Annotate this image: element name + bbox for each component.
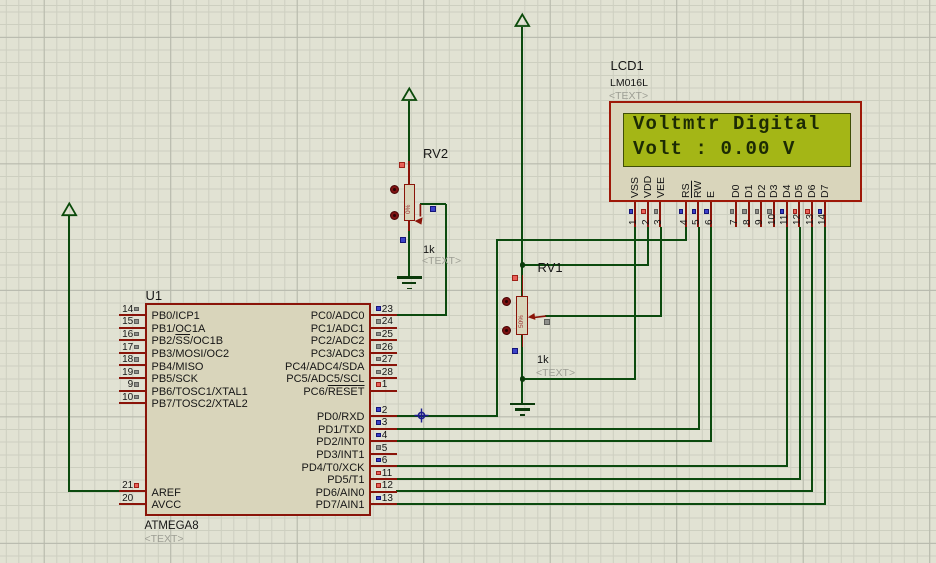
LCD pin number 7	[729, 220, 741, 226]
LCD pin label VDD	[642, 175, 655, 197]
label U1	[146, 288, 163, 303]
pin number 24	[382, 316, 393, 328]
RV2 adjust button upper	[390, 185, 399, 194]
label LCD1	[611, 58, 644, 73]
label RV1	[538, 260, 563, 275]
resistor RV2 top pin	[408, 161, 410, 184]
RV2 pin state square top	[399, 162, 405, 168]
ground under RV2	[397, 276, 422, 278]
pin stub left 14	[119, 314, 144, 316]
pin stub left 21	[119, 490, 144, 492]
wire pin23 wire	[396, 314, 448, 316]
pin stub right 27	[371, 364, 396, 366]
wire RV1 ground wire	[521, 335, 523, 404]
pin number 2	[382, 405, 388, 417]
pin number 4	[382, 430, 388, 442]
pin number 16	[122, 329, 133, 341]
wire power rail to AREF horizontal	[69, 490, 121, 492]
pin state square 24	[376, 319, 381, 324]
label LM016L	[610, 77, 648, 90]
LCD pin state square 5	[692, 209, 696, 213]
wire PD5 row wire	[396, 478, 801, 480]
resistor RV2 body	[404, 184, 415, 221]
pin name PB5/SCK	[152, 373, 198, 386]
LCD pin number 14	[817, 214, 829, 225]
pin state square 21	[134, 483, 139, 488]
pin state square 3	[376, 420, 381, 425]
power terminal +V left	[61, 201, 78, 218]
wire RV2 supply vertical	[408, 101, 410, 164]
pin name PC5/ADC5/SCL	[286, 373, 364, 386]
wire power rail to AREF vertical	[68, 216, 70, 492]
pin stub right 11	[371, 478, 396, 480]
pin state square 27	[376, 357, 381, 362]
LCD pin stub 11	[786, 202, 788, 227]
pin number 26	[382, 342, 393, 354]
pin name PD3/INT1	[316, 449, 364, 462]
pin number 12	[382, 480, 393, 492]
label RV2	[423, 146, 448, 161]
LCD pin number 11	[779, 215, 791, 225]
LCD pin label D4	[781, 184, 794, 197]
pin number 6	[382, 455, 388, 467]
wire E column	[710, 227, 712, 443]
pin stub right 26	[371, 352, 396, 354]
resistor RV2 bottom pin	[408, 221, 410, 231]
LCD pin stub 10	[773, 202, 775, 227]
pin number 19	[122, 367, 133, 379]
pin state square 17	[134, 345, 139, 350]
pin state square 11	[376, 471, 381, 476]
LCD pin stub 6	[710, 202, 712, 227]
pin name PB0/ICP1	[152, 310, 200, 323]
RV1 pin state square top	[512, 275, 518, 281]
wire PD7 row wire	[396, 503, 826, 505]
LCD pin stub 8	[748, 202, 750, 227]
wire D5 column	[799, 227, 801, 480]
wire RV2 wiper vertical	[445, 204, 447, 316]
label RV1 value 1k	[537, 354, 549, 367]
LCD pin number 3	[653, 220, 665, 226]
LCD pin number 8	[742, 220, 754, 226]
LCD pin number 12	[792, 214, 804, 225]
wire D6 column	[811, 227, 813, 493]
pin stub left 18	[119, 364, 144, 366]
LCD pin number 6	[704, 220, 716, 226]
pin stub left 16	[119, 339, 144, 341]
pin state square 14	[134, 307, 139, 312]
LCD pin state square 11	[780, 209, 784, 213]
RV2 adjust button lower	[390, 211, 399, 220]
junction +5V/VDD node	[520, 262, 526, 268]
LCD pin number 9	[754, 220, 766, 226]
pin number 21	[122, 480, 133, 492]
LCD pin number 10	[767, 214, 779, 225]
pin name PC6/<span st	[303, 386, 364, 399]
wire PD0 row wire	[396, 415, 499, 417]
LCD pin label E	[705, 190, 718, 197]
pin name PD7/AIN1	[316, 499, 365, 512]
pin name PD1/TXD	[318, 424, 364, 437]
ground under RV1	[510, 403, 535, 405]
pin name PB1/OC1A	[152, 323, 206, 336]
wire PD1 row wire	[396, 428, 700, 430]
wire VSS column	[634, 227, 636, 381]
LCD pin stub 14	[824, 202, 826, 227]
pin state square 16	[134, 332, 139, 337]
LCD pin state square 7	[730, 209, 734, 213]
LCD pin label D1	[743, 184, 756, 197]
LCD pin stub 4	[685, 202, 687, 227]
LCD pin label D7	[819, 184, 832, 197]
LCD pin label D0	[730, 184, 743, 197]
pin state square 15	[134, 319, 139, 324]
pin name PB4/MISO	[152, 361, 204, 374]
pin stub right 2	[371, 415, 396, 417]
pin name AVCC	[152, 499, 182, 512]
pin state square 1	[376, 382, 381, 387]
LCD pin stub 5	[697, 202, 699, 227]
pin state square 6	[376, 458, 381, 463]
RV1 adjust button upper	[502, 297, 511, 306]
node origin marker crosshair	[414, 408, 429, 423]
wire +5V vertical to RV1	[521, 27, 523, 298]
wire RS rail horizontal	[496, 239, 687, 241]
wire RV1 wiper horizontal	[545, 315, 662, 317]
pin number 3	[382, 417, 388, 429]
pin state square 5	[376, 445, 381, 450]
LCD pin state square 13	[805, 209, 809, 213]
pin number 11	[382, 468, 392, 480]
pin name PC3/ADC3	[311, 348, 365, 361]
pin name PD6/AIN0	[316, 487, 365, 500]
wire ground rail horizontal	[522, 378, 636, 380]
pin name PD5/T1	[327, 474, 364, 487]
pin stub right 28	[371, 377, 396, 379]
LCD pin state square 1	[629, 209, 633, 213]
LCD pin stub 2	[647, 202, 649, 227]
RV1 wiper arrow + wire to VEE	[526, 309, 548, 323]
LCD pin label VEE	[655, 176, 668, 197]
pin state square 9	[134, 382, 139, 387]
LCD pin label D5	[793, 184, 806, 197]
pin stub right 24	[371, 327, 396, 329]
wire VDD rail horizontal	[522, 264, 649, 266]
pin number 15	[122, 316, 133, 328]
pin name PC2/ADC2	[311, 335, 365, 348]
RV2 pin state square wiper	[430, 206, 436, 212]
wire PD4 row wire	[396, 465, 788, 467]
pin number 1	[382, 379, 388, 391]
IC U1 microcontroller ATMEGA8 body	[145, 303, 372, 517]
LCD1 screen	[623, 113, 851, 167]
label LCD1 TEXT	[609, 90, 648, 103]
power terminal +V main	[514, 12, 531, 28]
LCD pin number 2	[641, 220, 653, 226]
pin number 14	[122, 304, 133, 316]
LCD pin stub 7	[735, 202, 737, 227]
LCD pin label VSS	[629, 176, 642, 197]
RV1 body value text	[518, 315, 526, 328]
LCD pin state square 10	[767, 209, 771, 213]
pin state square 28	[376, 370, 381, 375]
pin state square 23	[376, 306, 381, 311]
pin name PD0/RXD	[317, 411, 365, 424]
junction ground node	[520, 376, 526, 382]
pin name PB3/MOSI/OC2	[152, 348, 230, 361]
pin number 27	[382, 354, 393, 366]
pin state square 13	[376, 496, 381, 501]
resistor RV1 bottom pin	[522, 335, 524, 347]
pin number 9	[128, 379, 134, 391]
wire VEE column	[660, 227, 662, 317]
LCD pin label D3	[768, 184, 781, 197]
wire PD6 row wire	[396, 490, 814, 492]
pin name PC1/ADC1	[311, 323, 365, 336]
pin state square 12	[376, 483, 381, 488]
pin name PB6/TOSC1/XT	[152, 386, 248, 399]
power terminal +V RV2	[401, 86, 418, 102]
LCD pin stub 9	[760, 202, 762, 227]
pin number 18	[122, 354, 133, 366]
LCD pin state square 9	[755, 209, 759, 213]
RV1 pin state square wiper	[544, 319, 550, 325]
pin number 5	[382, 443, 388, 455]
pin state square 4	[376, 433, 381, 438]
wire D4 column	[786, 227, 788, 468]
pin state square 10	[134, 395, 139, 400]
pin stub right 13	[371, 503, 396, 505]
pin number 13	[382, 493, 393, 505]
label RV1 TEXT	[536, 367, 575, 380]
LCD pin state square 12	[793, 209, 797, 213]
LCD pin label RS	[680, 183, 693, 198]
pin state square 26	[376, 344, 381, 349]
pin number 20	[122, 493, 133, 505]
wire RV2 wiper horizontal	[420, 203, 447, 205]
wire D7 column	[824, 227, 826, 506]
label RV2 value 1k	[423, 244, 435, 257]
LCD pin number 1	[628, 220, 640, 226]
LCD pin label D6	[806, 184, 819, 197]
pin stub left 17	[119, 352, 144, 354]
LCD pin number 4	[679, 220, 691, 226]
LCD pin number 13	[805, 214, 817, 225]
pin stub left 10	[119, 402, 144, 404]
wire RV2 ground wire	[408, 228, 410, 278]
pin number 10	[122, 392, 133, 404]
pin stub right 3	[371, 428, 396, 430]
pin state square 18	[134, 357, 139, 362]
pin name PB7/TOSC2/XT	[152, 398, 248, 411]
pin stub right 1	[371, 390, 396, 392]
pin name PD4/T0/XCK	[302, 462, 365, 475]
wire RS column	[685, 227, 687, 242]
wire RS rail vertical	[496, 240, 498, 417]
pin number 17	[122, 342, 133, 354]
pin state square 19	[134, 370, 139, 375]
pin stub right 5	[371, 453, 396, 455]
LCD pin label D2	[756, 184, 769, 197]
pin name PD2/INT0	[316, 436, 364, 449]
resistor RV1 top pin	[522, 275, 524, 297]
pin stub right 4	[371, 440, 396, 442]
pin state square 2	[376, 407, 381, 412]
pin name AREF	[152, 487, 181, 500]
LCD pin state square 8	[742, 209, 746, 213]
RV1 pin state square bottom	[512, 348, 518, 354]
pin stub left 20	[119, 503, 144, 505]
LCD pin stub 13	[811, 202, 813, 227]
LCD pin stub 3	[659, 202, 661, 227]
pin stub right 12	[371, 491, 396, 493]
LCD pin state square 6	[704, 209, 708, 213]
wire RW column	[698, 227, 700, 430]
wire PD2 row wire	[396, 440, 712, 442]
RV1 adjust button lower	[502, 326, 511, 335]
pin stub left 9	[119, 390, 144, 392]
pin stub left 19	[119, 377, 144, 379]
resistor RV1 body	[516, 296, 528, 334]
label U1 TEXT	[145, 533, 184, 546]
LCD display text line 1	[633, 117, 863, 133]
LCD pin state square 4	[679, 209, 683, 213]
LCD pin number 5	[691, 220, 703, 226]
pin stub right 6	[371, 465, 396, 467]
label ATMEGA8	[145, 520, 199, 534]
label RV2 TEXT	[422, 255, 461, 268]
pin stub left 15	[119, 327, 144, 329]
pin stub right 25	[371, 339, 396, 341]
LCD1 body LM016L	[609, 101, 862, 202]
LCD display text line 2	[633, 142, 863, 158]
pin name PC4/ADC4/SDA	[285, 361, 364, 374]
RV2 wiper arrow	[411, 202, 427, 227]
LCD pin stub 1	[634, 202, 636, 227]
pin number 23	[382, 304, 393, 316]
LCD pin state square 2	[641, 209, 645, 213]
pin name PC0/ADC0	[311, 310, 365, 323]
LCD pin label RW	[692, 180, 705, 197]
wire VDD column	[647, 227, 649, 267]
RV2 pin state square bottom	[400, 237, 406, 243]
pin name PB2/<span st	[152, 335, 224, 348]
pin state square 25	[376, 332, 381, 337]
pin stub right 23	[371, 314, 396, 316]
LCD pin state square 14	[818, 209, 822, 213]
LCD pin state square 3	[654, 209, 658, 213]
pin number 25	[382, 329, 393, 341]
RV2 body value text	[405, 205, 413, 214]
pin number 28	[382, 367, 393, 379]
LCD pin stub 12	[798, 202, 800, 227]
